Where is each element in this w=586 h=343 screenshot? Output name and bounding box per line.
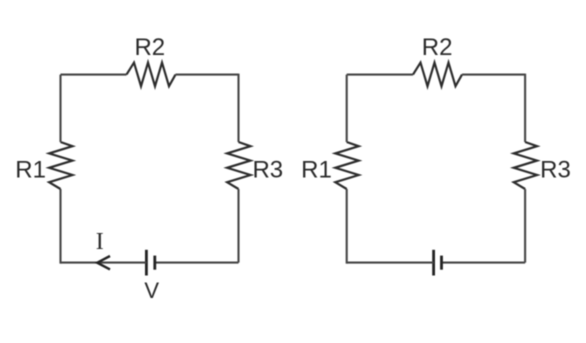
svg-text:R1: R1 bbox=[301, 156, 332, 183]
label I (current) bbox=[96, 229, 104, 255]
current arrow I (left circuit bottom wire) bbox=[97, 256, 110, 269]
wire: left circuit top wire (right segment) bbox=[176, 74, 239, 76]
wire: right circuit bottom wire (left segment from battery) bbox=[347, 262, 434, 264]
battery (right circuit) bbox=[434, 250, 442, 276]
svg-text:R2: R2 bbox=[422, 34, 453, 61]
svg-text:R1: R1 bbox=[15, 156, 46, 183]
wire: right circuit top wire (right segment) bbox=[462, 74, 525, 76]
label R3 (right circuit) bbox=[540, 157, 571, 184]
wire: left circuit top wire (left segment) bbox=[61, 74, 127, 76]
resistor R2 (left circuit, top) bbox=[127, 63, 176, 87]
resistor R1 (right circuit, left side) bbox=[335, 142, 358, 189]
label R1 (right circuit) bbox=[301, 156, 332, 183]
resistor R1 (left circuit, left side) bbox=[49, 142, 72, 189]
wire: left circuit right wire (lower segment) bbox=[237, 189, 239, 263]
wire: right circuit top wire (left segment) bbox=[347, 74, 413, 76]
resistor R2 (right circuit, top) bbox=[413, 63, 462, 87]
wire: left circuit left wire (lower segment) bbox=[59, 189, 61, 264]
svg-text:R3: R3 bbox=[540, 157, 571, 184]
svg-text:R3: R3 bbox=[252, 157, 283, 184]
svg-text:R2: R2 bbox=[134, 34, 165, 61]
wire: left circuit bottom wire (left segment from battery) bbox=[61, 262, 147, 264]
svg-text:V: V bbox=[144, 278, 159, 303]
label R3 (left circuit) bbox=[252, 157, 283, 184]
wire: right circuit left wire (lower segment) bbox=[346, 189, 348, 264]
resistor R3 (left circuit, right side) bbox=[227, 142, 250, 189]
wire: left circuit left wire (upper segment) bbox=[59, 75, 61, 142]
wire: left circuit bottom wire (right segment to battery) bbox=[155, 262, 239, 264]
wire: left circuit right wire (upper segment) bbox=[237, 74, 239, 142]
wire: right circuit right wire (upper segment) bbox=[524, 74, 526, 142]
battery V (left circuit) bbox=[146, 250, 154, 276]
resistor R3 (right circuit, right side) bbox=[514, 142, 537, 189]
label R2 (right circuit) bbox=[422, 34, 453, 61]
wire: right circuit bottom wire (right segment to battery) bbox=[442, 262, 526, 264]
svg-text:I: I bbox=[96, 229, 104, 255]
wire: right circuit right wire (lower segment) bbox=[524, 189, 526, 263]
label R2 (left circuit) bbox=[134, 34, 165, 61]
wire: right circuit left wire (upper segment) bbox=[346, 75, 348, 142]
label V (left circuit battery) bbox=[144, 278, 159, 303]
label R1 (left circuit) bbox=[15, 156, 46, 183]
